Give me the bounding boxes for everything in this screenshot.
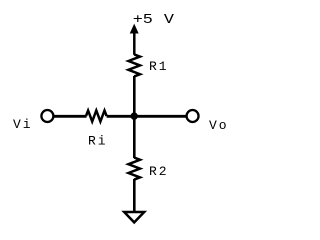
wire R1 to R2 through node [133, 76, 136, 158]
svg-text:R2: R2 [149, 164, 169, 179]
wire Vi to Ri [54, 115, 87, 118]
svg-text:Vo: Vo [209, 118, 229, 133]
resistor R2 [128, 158, 140, 180]
svg-text:+5V: +5V [133, 11, 175, 27]
terminal Vo [187, 110, 199, 122]
wire arrow shaft to R1 [133, 32, 136, 55]
svg-text:Vi: Vi [13, 117, 33, 132]
svg-text:R1: R1 [149, 59, 169, 74]
wire R2 to ground [133, 179, 136, 212]
ground [124, 212, 144, 222]
resistor Ri [86, 111, 107, 122]
resistor R1 [128, 54, 140, 76]
node junction dot [131, 112, 138, 119]
+5 V supply arrow [131, 25, 138, 33]
wire Ri to Vo [107, 115, 187, 118]
terminal Vi [41, 110, 53, 122]
svg-text:Ri: Ri [88, 134, 108, 149]
